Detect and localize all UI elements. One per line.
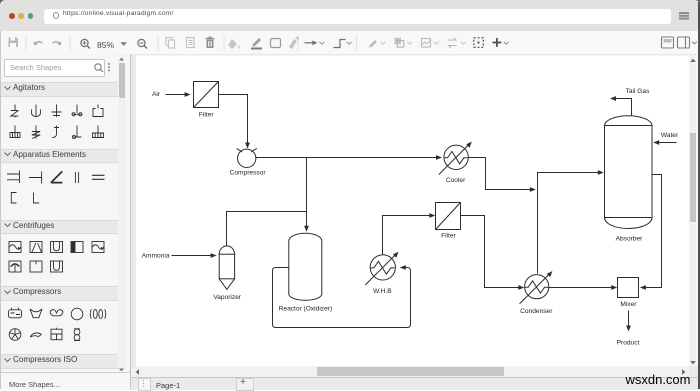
right panel toggles	[662, 37, 674, 48]
svg-text:Vaporizer: Vaporizer	[213, 294, 242, 301]
svg-text:85%: 85%	[97, 40, 114, 50]
dashed square	[474, 38, 484, 48]
traffic light green	[28, 13, 34, 19]
heat exchanger W.H.B	[370, 255, 395, 280]
url text	[63, 10, 174, 17]
shape outline	[271, 39, 281, 48]
connector style	[334, 40, 346, 48]
wire Absorber tail gas	[616, 99, 632, 116]
svg-text:W.H.B: W.H.B	[373, 288, 392, 295]
horizontal scrollbar	[131, 367, 689, 377]
window left border	[0, 31, 1, 389]
compressor C1	[238, 149, 256, 167]
svg-text:Mixer: Mixer	[620, 301, 637, 308]
cooler heat exchanger	[444, 145, 468, 169]
apparatus icons row 1	[7, 171, 20, 184]
svg-text:Cooler: Cooler	[446, 177, 466, 184]
absorber column	[605, 116, 653, 229]
sidebar shape icons	[0, 54, 125, 374]
wire Filter to Compressor	[219, 95, 248, 144]
agitator icons row 1	[11, 105, 19, 118]
sidebar scrollbar	[118, 54, 125, 372]
filter F1 square	[194, 82, 219, 108]
fill color	[228, 39, 237, 49]
svg-text:Compressor: Compressor	[230, 170, 267, 177]
reactor vessel	[289, 233, 322, 300]
agitator icons row 2	[10, 126, 20, 138]
wire W.H.B to Filter2	[383, 216, 430, 255]
copy	[166, 38, 172, 46]
chrome menu icon	[679, 12, 689, 14]
arrow style	[305, 42, 314, 44]
mixer M1	[618, 278, 639, 298]
paste	[187, 38, 195, 48]
compressor icons row 2	[9, 329, 21, 341]
watermark	[625, 372, 690, 387]
svg-text:Reactor (Oxidizer): Reactor (Oxidizer)	[279, 306, 333, 313]
save floppy	[9, 38, 19, 48]
svg-text:Filter: Filter	[441, 232, 456, 239]
sidebar right border	[130, 54, 131, 389]
traffic light yellow	[18, 13, 24, 19]
wire Vaporizer to branch junction	[227, 212, 307, 246]
grouped dropdown icons	[369, 40, 377, 48]
svg-text:Tail Gas: Tail Gas	[626, 88, 651, 95]
zoom out	[138, 39, 145, 46]
svg-text:Condenser: Condenser	[520, 308, 553, 315]
svg-text:Filter: Filter	[199, 112, 214, 119]
trash	[207, 40, 214, 49]
tab bar	[131, 377, 700, 391]
shadow brush	[289, 39, 297, 49]
wire Ammonia to Vaporizer	[172, 255, 212, 257]
svg-text:Absorber: Absorber	[616, 236, 644, 243]
svg-text:Ammonia: Ammonia	[142, 252, 170, 259]
reload circle icon	[53, 12, 60, 19]
undo	[35, 42, 43, 45]
line color pencil	[252, 38, 261, 47]
compressor icons row 1	[9, 310, 22, 318]
svg-text:Air: Air	[152, 91, 161, 98]
wire Compressor to Cooler	[256, 157, 436, 159]
wire junction vertical and to Absorber	[538, 173, 599, 274]
search box	[4, 59, 105, 77]
window right border	[698, 2, 700, 389]
redo	[53, 42, 61, 45]
condenser heat exchanger	[525, 275, 549, 299]
toolbar	[0, 31, 700, 55]
filter F2 square	[436, 203, 461, 230]
plus	[493, 42, 502, 44]
url bar	[44, 9, 671, 24]
wire branch down to Reactor	[306, 158, 308, 227]
traffic light red	[9, 13, 15, 19]
wire Filter2 to Condenser	[461, 216, 520, 288]
wire Water into Absorber	[659, 142, 677, 144]
vaporizer vessel	[219, 246, 234, 290]
wire Air to Filter	[166, 94, 185, 96]
centrifuge icons row 1	[9, 242, 21, 253]
wire Reactor loop to W.H.B	[273, 268, 411, 328]
window dark corners	[0, 0, 4, 4]
wire Condenser to Mixer	[549, 287, 612, 289]
svg-text:Product: Product	[617, 339, 640, 346]
svg-text:Water: Water	[661, 132, 679, 139]
wire Cooler to junction	[468, 158, 530, 190]
section headers + icon area placeholder (filled by later svg)	[0, 82, 125, 97]
centrifuge icons row 2	[9, 261, 21, 272]
browser chrome bar	[0, 0, 700, 31]
vertical scrollbar	[689, 55, 697, 366]
apparatus icons row 2	[11, 193, 16, 204]
wire Mixer to Product	[628, 311, 630, 327]
wire Absorber to Mixer	[645, 175, 661, 288]
zoom in	[81, 39, 88, 46]
more shapes bar	[0, 372, 130, 390]
